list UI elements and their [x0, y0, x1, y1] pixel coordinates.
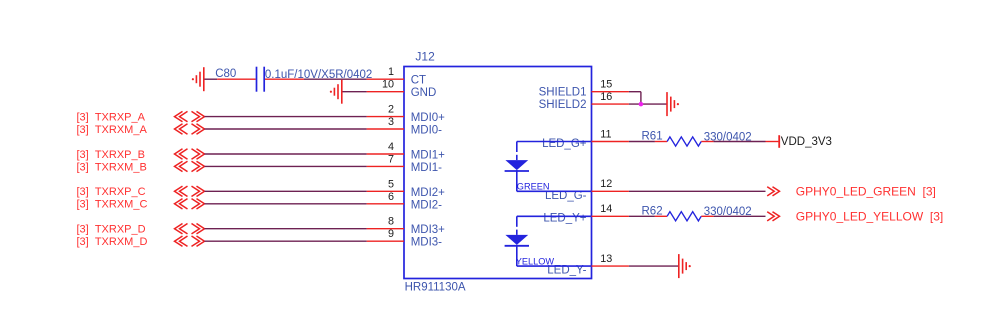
svg-text:MDI0-: MDI0- [411, 125, 442, 137]
svg-text:MDI3-: MDI3- [411, 237, 442, 249]
svg-text:7: 7 [388, 153, 394, 165]
connector J12 body [404, 67, 592, 279]
pin 12 LED_G- stub [592, 190, 629, 192]
ground LED_Y- [679, 254, 691, 278]
internal net LED_G- line [517, 190, 592, 192]
wire gnd to pin 10 [343, 91, 367, 93]
svg-text:[3] TXRXP_C: [3] TXRXP_C [77, 186, 146, 198]
wire pin 11 to R61 [629, 141, 655, 143]
svg-text:10: 10 [382, 79, 394, 91]
wire TXRXP_D to pin 8 [205, 228, 367, 230]
svg-text:4: 4 [388, 141, 394, 153]
wire TXRXM_B to pin 7 [205, 165, 367, 167]
pin 8 MDI3+ stub [367, 228, 404, 230]
svg-text:14: 14 [600, 203, 612, 215]
wire pin 12 to port [629, 190, 766, 192]
wire TXRXP_B to pin 4 [205, 153, 367, 155]
svg-text:GREEN: GREEN [517, 182, 550, 192]
svg-text:MDI2-: MDI2- [411, 199, 442, 211]
svg-text:[3] TXRXP_B: [3] TXRXP_B [77, 149, 145, 161]
capacitor C80 [217, 67, 304, 92]
wire C80 to pin 1 [304, 78, 367, 80]
svg-text:GND: GND [411, 87, 437, 99]
svg-text:15: 15 [600, 79, 612, 91]
svg-text:CT: CT [411, 75, 426, 87]
port symbol GPHY0_LED_YELLOW [767, 212, 779, 221]
pin 7 MDI1- stub [367, 165, 404, 167]
pin 4 MDI1+ stub [367, 153, 404, 155]
wire pin 16 to ground [629, 103, 667, 105]
svg-text:MDI3+: MDI3+ [411, 224, 445, 236]
junction shield net [639, 102, 644, 107]
resistor R62 [655, 212, 714, 221]
pin 6 MDI2- stub [367, 203, 404, 205]
port symbol TXRXP_A [175, 111, 205, 121]
port symbol TXRXM_C [175, 199, 205, 209]
wire R62 to port [714, 215, 766, 217]
svg-text:[3] TXRXM_C: [3] TXRXM_C [77, 199, 148, 211]
svg-text:5: 5 [388, 178, 394, 190]
wire TXRXM_A to pin 3 [205, 128, 367, 130]
svg-text:[3] TXRXM_D: [3] TXRXM_D [77, 236, 148, 248]
svg-text:8: 8 [388, 216, 394, 228]
svg-text:[3] TXRXM_B: [3] TXRXM_B [77, 161, 147, 173]
port symbol TXRXP_D [175, 224, 205, 234]
svg-text:SHIELD2: SHIELD2 [539, 99, 587, 111]
svg-text:MDI0+: MDI0+ [411, 112, 445, 124]
svg-text:16: 16 [600, 91, 612, 103]
svg-text:SHIELD1: SHIELD1 [539, 87, 587, 99]
pin 2 MDI0+ stub [367, 116, 404, 118]
ground shield [667, 92, 679, 116]
internal net LED_G+ line [517, 141, 592, 143]
internal net LED_Y+ line [517, 215, 592, 217]
pin 16 SHIELD2 stub [592, 103, 629, 105]
ground for C80 [192, 67, 204, 91]
resistor R61 [655, 137, 714, 146]
LED YELLOW internal [505, 216, 529, 266]
svg-text:C80: C80 [215, 68, 236, 80]
pin 10 GND stub [367, 91, 404, 93]
pin 3 MDI0- stub [367, 128, 404, 130]
svg-text:HR911130A: HR911130A [405, 281, 466, 293]
svg-text:R62: R62 [642, 205, 663, 217]
pin 1 CT stub [367, 78, 404, 80]
svg-text:R61: R61 [642, 131, 663, 143]
svg-text:1: 1 [388, 66, 394, 78]
port symbol GPHY0_LED_GREEN [767, 187, 779, 196]
svg-text:9: 9 [388, 228, 394, 240]
svg-text:MDI1+: MDI1+ [411, 150, 445, 162]
wire pin 13 to ground [629, 265, 679, 267]
pin 15 SHIELD1 stub [592, 91, 629, 93]
svg-text:GPHY0_LED_YELLOW [3]: GPHY0_LED_YELLOW [3] [796, 210, 943, 224]
svg-text:11: 11 [600, 128, 611, 140]
pin 11 LED_G+ stub [592, 141, 629, 143]
svg-text:LED_G+: LED_G+ [542, 138, 587, 150]
power symbol VDD_3V3 [766, 135, 780, 148]
svg-text:GPHY0_LED_GREEN [3]: GPHY0_LED_GREEN [3] [796, 185, 936, 199]
port symbol TXRXM_B [175, 161, 205, 171]
svg-text:[3] TXRXP_A: [3] TXRXP_A [77, 112, 146, 124]
svg-text:12: 12 [600, 178, 612, 190]
wire gnd to C80 [205, 78, 218, 80]
svg-text:6: 6 [388, 191, 394, 203]
wire TXRXP_A to pin 2 [205, 116, 367, 118]
wire pin 14 to R62 [629, 215, 655, 217]
wire pin 15 vertical drop [640, 92, 642, 104]
svg-text:3: 3 [388, 116, 394, 128]
svg-text:LED_Y+: LED_Y+ [543, 213, 586, 225]
svg-text:2: 2 [388, 104, 394, 116]
port symbol TXRXM_D [175, 236, 205, 246]
wire TXRXP_C to pin 5 [205, 190, 367, 192]
pin 14 LED_Y+ stub [592, 215, 629, 217]
port symbol TXRXM_A [175, 124, 205, 134]
svg-text:MDI2+: MDI2+ [411, 187, 445, 199]
ground for GND pin 10 [330, 80, 342, 104]
wire pin 15 horizontal [629, 91, 641, 93]
port symbol TXRXP_C [175, 186, 205, 196]
pin 9 MDI3- stub [367, 240, 404, 242]
wire R61 to VDD [714, 141, 766, 143]
wire TXRXM_C to pin 6 [205, 203, 367, 205]
wire TXRXM_D to pin 9 [205, 240, 367, 242]
svg-text:[3] TXRXP_D: [3] TXRXP_D [77, 224, 146, 236]
pin 13 LED_Y- stub [592, 265, 629, 267]
svg-text:13: 13 [600, 253, 612, 265]
svg-text:MDI1-: MDI1- [411, 162, 442, 174]
svg-text:J12: J12 [415, 49, 435, 63]
svg-text:VDD_3V3: VDD_3V3 [781, 136, 832, 148]
LED GREEN internal [505, 142, 529, 192]
port symbol TXRXP_B [175, 149, 205, 159]
internal net LED_Y- line [517, 265, 592, 267]
pin 5 MDI2+ stub [367, 190, 404, 192]
svg-text:[3] TXRXM_A: [3] TXRXM_A [77, 124, 148, 136]
svg-text:YELLOW: YELLOW [516, 257, 555, 267]
